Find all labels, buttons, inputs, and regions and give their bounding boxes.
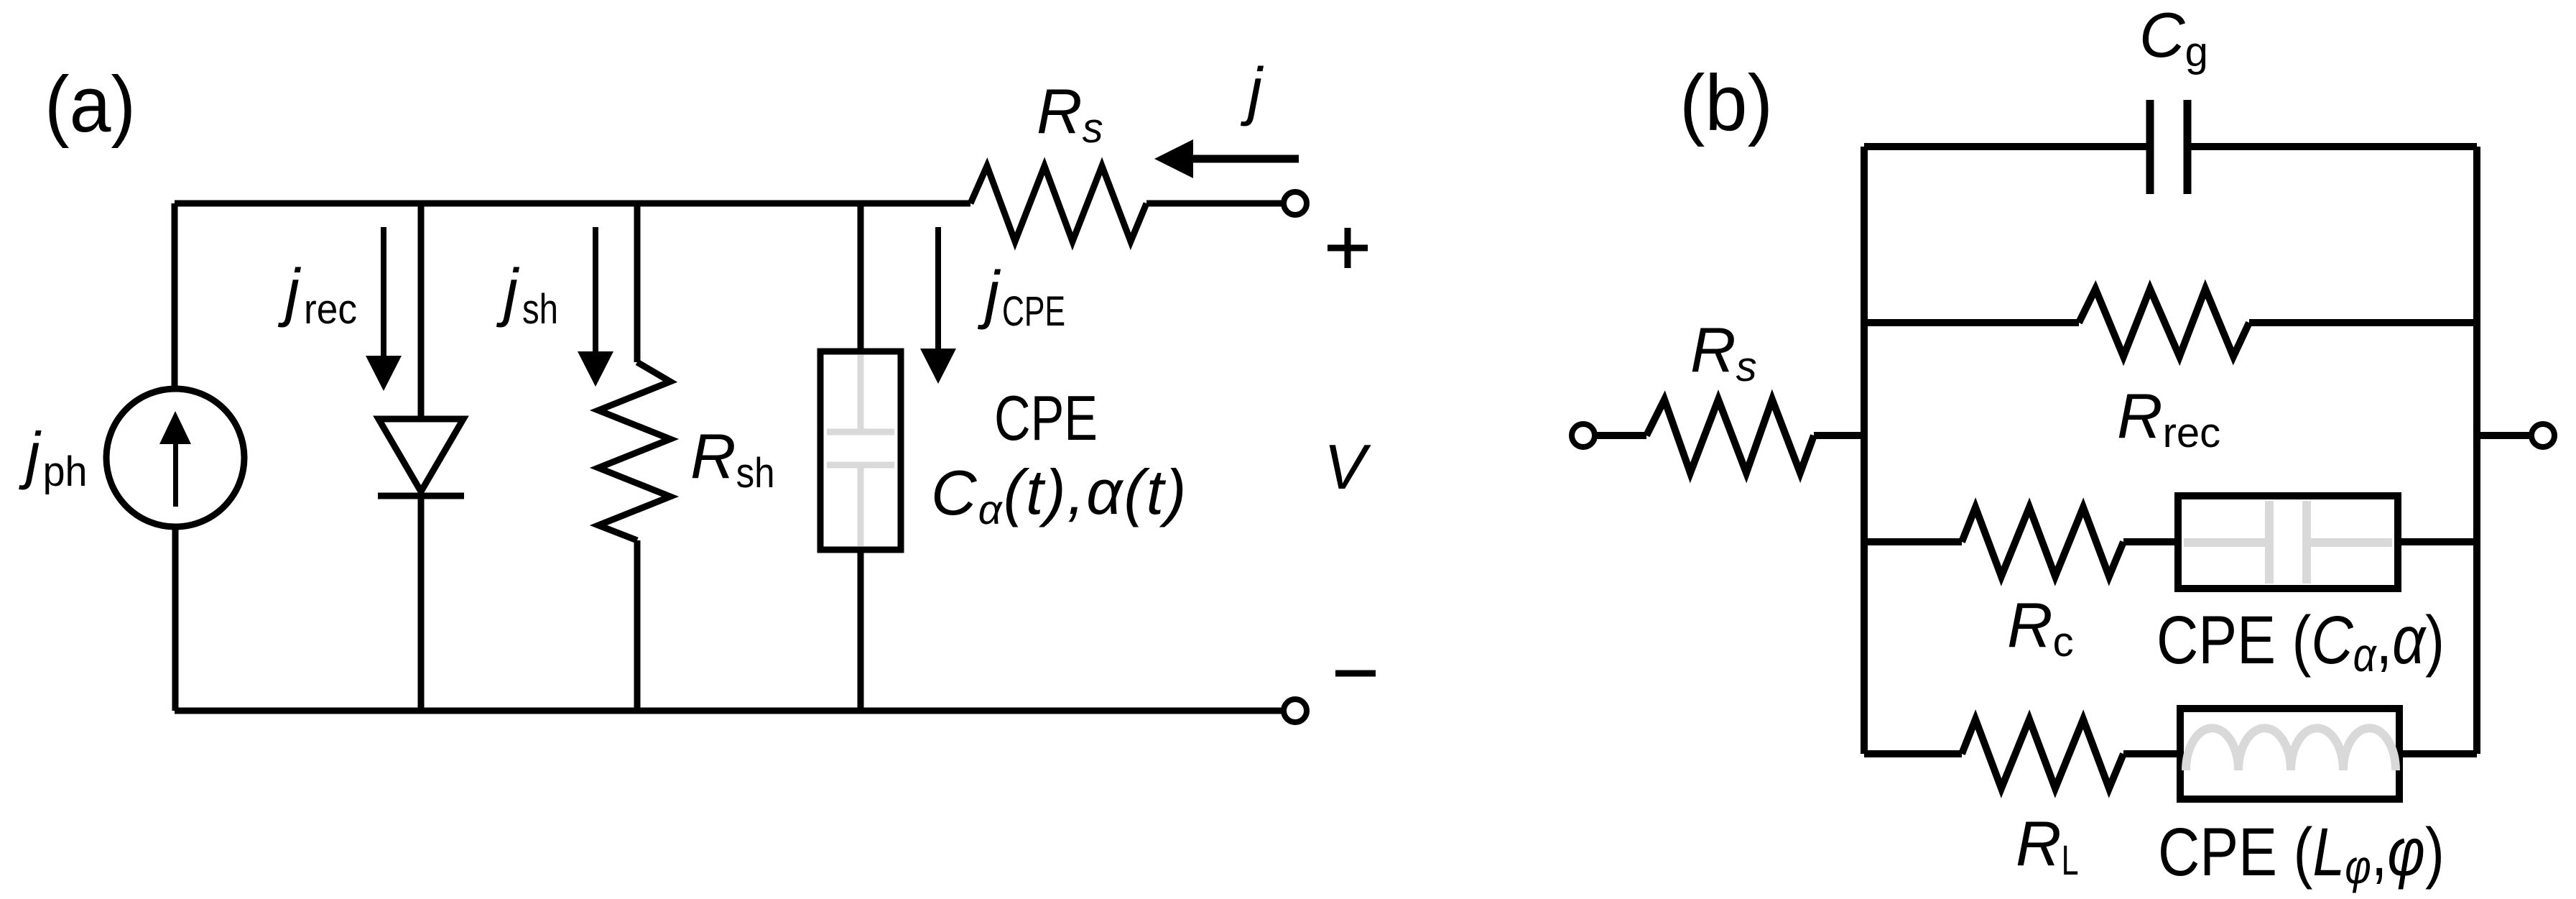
svg-text:Cα(t),α(t): Cα(t),α(t) <box>931 456 1187 533</box>
svg-text:CPE (Lφ,φ): CPE (Lφ,φ) <box>2158 813 2445 893</box>
svg-text:V: V <box>1324 431 1371 502</box>
svg-text:CPE (Cα,α): CPE (Cα,α) <box>2156 601 2445 681</box>
svg-text:(a): (a) <box>45 60 136 149</box>
svg-text:CPE: CPE <box>994 382 1098 453</box>
svg-text:(b): (b) <box>1680 59 1773 147</box>
